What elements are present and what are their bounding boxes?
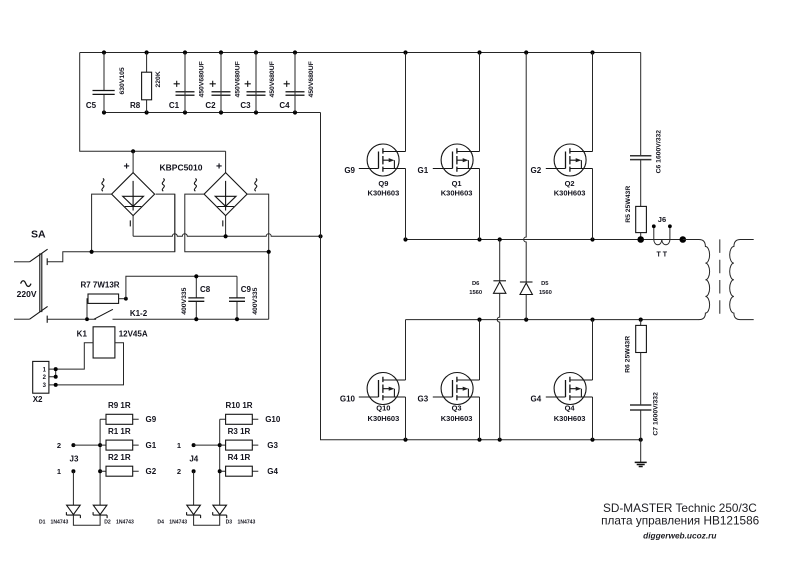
svg-text:G3: G3 <box>418 395 429 404</box>
svg-text:D4: D4 <box>157 520 164 526</box>
svg-text:2: 2 <box>43 375 47 381</box>
svg-text:1N4743: 1N4743 <box>51 520 69 526</box>
diode D4 1N4743 <box>157 505 200 525</box>
diode D1 1N4743 <box>39 505 80 525</box>
svg-text:C4: C4 <box>279 101 290 110</box>
transistor Q4 K30H603 <box>531 320 593 440</box>
wire capacitor-bank bottom bus <box>104 112 321 114</box>
svg-text:D2: D2 <box>104 520 111 526</box>
wire lower drain rail <box>406 319 700 321</box>
transistor Q3 K30H603 <box>418 320 480 440</box>
svg-text:R1 1R: R1 1R <box>108 427 131 436</box>
jumper J6 and current transformer TT <box>652 215 672 259</box>
svg-text:G1: G1 <box>418 166 429 175</box>
wire DC-minus line with hops <box>133 234 320 236</box>
diode D6 1560 <box>469 240 506 440</box>
svg-text:C5: C5 <box>86 101 97 110</box>
svg-text:K1: K1 <box>77 330 88 339</box>
svg-text:J3: J3 <box>70 455 79 464</box>
wire bridge1 AC-left down to SA line <box>92 194 112 252</box>
svg-text:Q1: Q1 <box>452 179 462 188</box>
svg-text:G3: G3 <box>267 441 278 450</box>
wire left feed to bridges <box>80 53 226 152</box>
svg-text:G1: G1 <box>146 441 157 450</box>
svg-text:C8: C8 <box>200 285 211 294</box>
svg-text:C7 1600V/332: C7 1600V/332 <box>652 392 659 436</box>
svg-text:K1-2: K1-2 <box>130 309 148 318</box>
svg-text:R9 1R: R9 1R <box>108 401 131 410</box>
svg-text:плата управления НВ121586: плата управления НВ121586 <box>601 514 759 528</box>
bridge rectifier BR1 KBPC5010 <box>102 151 164 236</box>
capacitor C8 <box>181 274 211 321</box>
resistor R6 <box>625 320 647 405</box>
junction dot R7 right node <box>124 297 128 301</box>
resistor R10 <box>220 401 259 424</box>
svg-text:G10: G10 <box>265 415 281 424</box>
svg-text:SA: SA <box>31 229 46 241</box>
resistor R3 <box>220 427 259 450</box>
svg-text:K30H603: K30H603 <box>554 414 586 423</box>
svg-text:400V335: 400V335 <box>252 287 259 314</box>
svg-text:1N4743: 1N4743 <box>169 520 187 526</box>
wire mains bottom line (SA to K1-2) <box>47 318 96 320</box>
capacitor C9 <box>229 276 259 321</box>
svg-text:1560: 1560 <box>539 290 552 296</box>
wire J4 gate bus <box>219 419 221 505</box>
wire bridge1 AC-right down to SA line <box>156 194 175 252</box>
svg-text:T T: T T <box>657 251 668 258</box>
svg-text:G4: G4 <box>267 467 278 476</box>
svg-text:220K: 220K <box>155 71 162 87</box>
transformer TT primary winding <box>683 240 710 320</box>
wire R7 output to C8/C9 tops <box>126 276 237 298</box>
svg-text:Q4: Q4 <box>565 404 576 413</box>
svg-text:G9: G9 <box>344 166 355 175</box>
svg-text:K30H603: K30H603 <box>368 414 400 423</box>
junction dot bridge feed <box>131 149 135 153</box>
svg-text:2: 2 <box>177 467 181 476</box>
node J4 pin 1 <box>177 441 220 450</box>
junction dot bridge2 AC node <box>267 250 271 254</box>
connector X2 <box>33 361 56 404</box>
junction dots J4 bus <box>218 443 222 473</box>
svg-text:Q9: Q9 <box>378 179 388 188</box>
diode D5 1560 <box>520 53 552 320</box>
svg-text:D1: D1 <box>39 520 46 526</box>
svg-text:C3: C3 <box>240 101 251 110</box>
transistor Q2 K30H603 <box>531 53 593 240</box>
capacitor C7 <box>630 392 659 462</box>
resistor R5 <box>625 186 646 240</box>
resistor R9 <box>100 401 139 424</box>
wire J3 pin1 to D1 <box>72 471 74 505</box>
resistor R7 <box>80 281 125 320</box>
svg-text:1: 1 <box>57 467 61 476</box>
svg-text:R4 1R: R4 1R <box>228 453 251 462</box>
svg-text:1560: 1560 <box>469 290 482 296</box>
svg-text:R5 25W43R: R5 25W43R <box>625 186 632 223</box>
transformer secondary winding <box>730 240 754 320</box>
svg-text:R2 1R: R2 1R <box>108 453 131 462</box>
svg-text:diggerweb.ucoz.ru: diggerweb.ucoz.ru <box>643 531 716 541</box>
svg-text:450V680UF: 450V680UF <box>269 61 276 97</box>
wire J4 pin2 to D4 <box>193 471 195 505</box>
svg-text:K30H603: K30H603 <box>441 189 473 198</box>
junction dots capacitor-bank bottom bus <box>102 110 297 114</box>
ground <box>635 462 647 466</box>
svg-text:R3 1R: R3 1R <box>228 427 251 436</box>
node J3 pin 1 <box>57 455 79 476</box>
svg-text:450V680UF: 450V680UF <box>235 61 242 97</box>
svg-text:D3: D3 <box>226 520 233 526</box>
bridge rectifier BR2 KBPC5010 <box>194 151 256 236</box>
svg-text:1N4743: 1N4743 <box>116 520 134 526</box>
svg-text:400V335: 400V335 <box>181 287 188 314</box>
node J4 pin 2 <box>177 455 199 476</box>
junction dot R7 left <box>85 317 89 321</box>
wire top bus (+ rail) <box>80 52 641 54</box>
wire D4-D3 return <box>194 515 220 525</box>
junction dot R5/mid-bus node <box>637 236 644 243</box>
svg-text:X2: X2 <box>33 395 43 404</box>
resistor R1 <box>100 427 139 450</box>
svg-text:J4: J4 <box>189 455 198 464</box>
wire DC-minus riser x=320 and bottom return rail <box>321 113 641 440</box>
junction dots lower drain rail <box>477 318 642 322</box>
junction dots bottom return rail <box>403 438 642 442</box>
transistor Q10 K30H603 <box>340 320 406 440</box>
capacitor C3 <box>240 53 276 113</box>
svg-text:C9: C9 <box>241 285 252 294</box>
wire D1-D2 return <box>73 515 100 525</box>
junction dot SA top line / bridge1 AC-left <box>90 250 94 254</box>
label title block <box>601 501 759 541</box>
svg-text:G2: G2 <box>146 467 157 476</box>
junction dots DC-minus line <box>224 234 323 238</box>
svg-text:G10: G10 <box>340 395 356 404</box>
svg-text:R8: R8 <box>130 101 141 110</box>
svg-text:C6 1600V/332: C6 1600V/332 <box>656 130 663 174</box>
transistor Q9 K30H603 <box>344 53 405 240</box>
svg-text:G4: G4 <box>531 395 542 404</box>
wire mid bus (upper sources) <box>406 239 683 241</box>
capacitor C4 <box>279 53 315 113</box>
wire bridge2 AC-left down to AC segment <box>185 194 269 252</box>
svg-text:220V: 220V <box>17 289 37 299</box>
svg-text:R6 25W43R: R6 25W43R <box>625 336 632 373</box>
svg-text:3: 3 <box>43 383 47 389</box>
svg-text:Q3: Q3 <box>452 404 462 413</box>
svg-text:Q10: Q10 <box>376 404 390 413</box>
transistor Q1 K30H603 <box>418 53 480 240</box>
resistor R2 <box>100 453 139 476</box>
svg-text:450V680UF: 450V680UF <box>199 61 206 97</box>
contact K1-2 (relay contact) <box>94 309 269 319</box>
svg-text:G9: G9 <box>146 415 157 424</box>
diode D2 1N4743 <box>93 505 134 525</box>
svg-text:K30H603: K30H603 <box>441 414 473 423</box>
svg-text:D5: D5 <box>541 281 549 287</box>
node J3 pin 2 <box>57 441 100 450</box>
resistor R4 <box>220 453 259 476</box>
junction dots mid bus <box>403 237 594 241</box>
transformer core <box>719 239 721 320</box>
switch SA (2-pole mains switch) <box>14 194 175 323</box>
svg-text:1: 1 <box>43 367 47 373</box>
capacitor C2 <box>205 53 241 113</box>
capacitor C5 <box>86 53 126 113</box>
svg-text:12V45A: 12V45A <box>119 330 148 339</box>
diode D3 1N4743 <box>213 505 256 525</box>
svg-text:KBPC5010: KBPC5010 <box>160 163 203 173</box>
svg-text:C2: C2 <box>205 101 216 110</box>
wire bridge2 AC-right down to K1-2 line <box>247 194 268 319</box>
svg-text:J6: J6 <box>658 215 666 224</box>
resistor R8 <box>130 53 162 113</box>
relay coil K1 <box>56 327 148 385</box>
svg-text:Q2: Q2 <box>565 179 575 188</box>
capacitor C1 <box>169 53 206 113</box>
svg-text:1: 1 <box>177 441 181 450</box>
svg-text:C1: C1 <box>169 101 180 110</box>
svg-text:G2: G2 <box>531 166 542 175</box>
svg-text:630V105: 630V105 <box>119 67 126 94</box>
junction dots J3 bus <box>98 443 102 473</box>
svg-text:K30H603: K30H603 <box>368 189 400 198</box>
svg-text:R10 1R: R10 1R <box>225 401 252 410</box>
svg-text:1N4743: 1N4743 <box>238 520 256 526</box>
junction dot TT output node <box>680 236 687 243</box>
junction dots X2 pins <box>54 367 58 387</box>
capacitor C6 <box>630 53 663 207</box>
svg-text:R7 7W13R: R7 7W13R <box>80 281 119 290</box>
svg-text:450V680UF: 450V680UF <box>308 61 315 97</box>
svg-text:2: 2 <box>57 441 61 450</box>
junction dots top bus <box>102 50 595 54</box>
svg-text:K30H603: K30H603 <box>554 189 586 198</box>
svg-text:D6: D6 <box>472 281 480 287</box>
wire J3 gate bus <box>99 419 101 505</box>
